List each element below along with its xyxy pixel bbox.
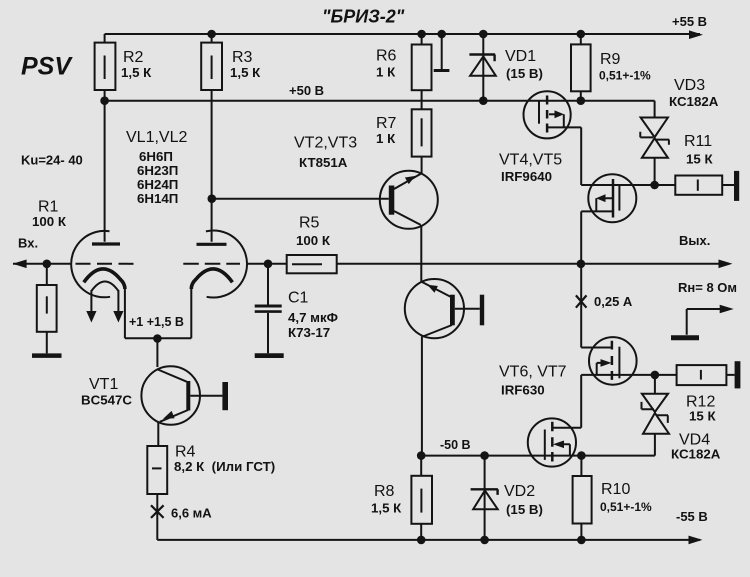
wire +50V line xyxy=(105,100,655,102)
svg-text:R9: R9 xyxy=(600,51,621,68)
svg-text:R10: R10 xyxy=(601,481,630,498)
wire VD3 drop xyxy=(654,101,656,185)
wire VT5 line to R11 node xyxy=(581,184,654,186)
wire -55V bottom rail xyxy=(157,539,700,541)
transistor VT3 xyxy=(405,279,464,338)
svg-text:К73-17: К73-17 xyxy=(288,325,330,340)
svg-text:R6: R6 xyxy=(376,48,397,65)
svg-text:-50 В: -50 В xyxy=(440,438,471,452)
svg-text:IRF9640: IRF9640 xyxy=(501,169,552,184)
wire R4 to bottom rail xyxy=(156,494,158,540)
wire output column to VT6 xyxy=(581,264,612,348)
transistor VT2 xyxy=(380,171,438,229)
svg-text:VD1: VD1 xyxy=(505,48,536,65)
svg-text:PSV: PSV xyxy=(21,53,73,81)
svg-text:VD2: VD2 xyxy=(504,483,535,500)
ground below R1 xyxy=(32,353,62,358)
resistor R9 xyxy=(571,44,591,91)
wire tap stub at R6 xyxy=(441,34,443,71)
capacitor C1 xyxy=(255,305,282,308)
svg-text:R8: R8 xyxy=(374,483,395,500)
wire VD4 column xyxy=(654,375,656,456)
svg-text:R7: R7 xyxy=(376,115,397,132)
svg-text:6Н14П: 6Н14П xyxy=(137,191,178,206)
wire VT6 source line to R12 node xyxy=(581,374,655,376)
svg-text:15 К: 15 К xyxy=(689,409,716,424)
wire R9 branch xyxy=(580,34,582,101)
svg-text:+55 В: +55 В xyxy=(672,14,707,29)
zener pair VD3 xyxy=(641,118,668,138)
svg-text:R3: R3 xyxy=(232,49,253,66)
svg-text:1 К: 1 К xyxy=(376,64,396,79)
svg-text:Ku=24- 40: Ku=24- 40 xyxy=(21,153,83,168)
triode VL2 circle xyxy=(206,231,247,298)
arrow -55V xyxy=(689,536,703,545)
wire VT2 collector / VT3 emitter column xyxy=(420,225,422,282)
svg-text:"БРИЗ-2": "БРИЗ-2" xyxy=(322,7,405,27)
svg-text:КТ851А: КТ851А xyxy=(299,155,348,170)
svg-text:R5: R5 xyxy=(299,215,320,232)
svg-text:8,2 К (Или ГСТ): 8,2 К (Или ГСТ) xyxy=(174,459,275,474)
mosfet VT4 xyxy=(524,91,571,138)
ground at load return xyxy=(671,335,699,340)
arrow +55V xyxy=(689,30,703,39)
svg-text:+50 В: +50 В xyxy=(289,83,324,98)
wire R2 branch (rail to tube1 anode) xyxy=(104,34,106,242)
resistor R7 xyxy=(412,109,432,156)
triode VL1 cathode xyxy=(84,269,125,289)
marker x 6,6 mA xyxy=(151,505,164,518)
svg-text:R4: R4 xyxy=(175,444,196,461)
svg-text:0,51+-1%: 0,51+-1% xyxy=(600,500,652,514)
svg-text:R1: R1 xyxy=(38,199,59,216)
wire VT6 to VT7 drop xyxy=(553,375,581,428)
wire VD2 branch xyxy=(484,456,486,540)
svg-text:1,5 К: 1,5 К xyxy=(121,65,152,80)
triode VL2 anode xyxy=(197,243,227,246)
svg-text:100 К: 100 К xyxy=(296,233,331,248)
zener VD1 xyxy=(469,55,495,62)
terminal bar at VT3 base xyxy=(480,295,484,326)
wire C1 branch to ground xyxy=(267,264,269,353)
terminal bar right of R11 xyxy=(734,171,739,201)
mosfet VT5 xyxy=(588,174,636,222)
svg-text:6Н24П: 6Н24П xyxy=(137,177,178,192)
svg-text:VL1,VL2: VL1,VL2 xyxy=(126,129,187,146)
resistor R11 xyxy=(675,176,722,195)
svg-text:Вх.: Вх. xyxy=(18,236,38,251)
mosfet VT7 xyxy=(528,418,576,466)
svg-text:+1 +1,5 В: +1 +1,5 В xyxy=(129,315,184,329)
svg-text:(15 В): (15 В) xyxy=(506,502,543,517)
wire grid dashed line xyxy=(76,263,134,265)
triode VL1 circle xyxy=(71,231,110,297)
arrow Вх (input, left) xyxy=(13,260,27,269)
svg-text:R2: R2 xyxy=(123,49,144,66)
svg-text:C1: C1 xyxy=(288,290,309,307)
svg-text:15 К: 15 К xyxy=(686,152,713,167)
wire load return xyxy=(687,309,721,335)
svg-text:VD3: VD3 xyxy=(674,77,705,94)
svg-text:Вых.: Вых. xyxy=(679,233,710,248)
ground below C1 xyxy=(255,353,284,358)
resistor R4 xyxy=(147,446,167,494)
wire -50V line xyxy=(421,455,655,457)
wire R11 leads xyxy=(655,184,734,186)
resistor R8 xyxy=(411,476,432,524)
resistor R1 xyxy=(37,285,57,332)
wire R8 leads xyxy=(420,456,422,540)
svg-text:VT1: VT1 xyxy=(89,376,118,393)
wire R12 leads xyxy=(655,374,735,376)
svg-text:VT6, VT7: VT6, VT7 xyxy=(499,364,567,381)
mosfet VT6 xyxy=(589,337,637,385)
resistor R6 xyxy=(412,45,432,91)
arrow load return xyxy=(720,305,734,314)
transistor VT1 xyxy=(141,366,200,425)
wire mid line R5 to output arrow xyxy=(246,263,729,265)
svg-text:BC547C: BC547C xyxy=(81,393,132,408)
terminal bar right of R12 xyxy=(735,361,741,388)
arrow Вых (output, right) xyxy=(719,260,733,269)
zener pair VD4 xyxy=(642,394,668,412)
svg-text:1,5 К: 1,5 К xyxy=(371,501,402,516)
svg-text:0,25 А: 0,25 А xyxy=(594,294,633,309)
wire base line R3 node to VT2 base xyxy=(212,198,389,200)
resistor R5 xyxy=(287,255,337,273)
svg-text:100 К: 100 К xyxy=(32,214,67,229)
svg-text:VT2,VT3: VT2,VT3 xyxy=(294,135,357,152)
triode VL2 cathode xyxy=(191,269,232,289)
wire VD1 branch xyxy=(482,34,484,101)
resistor R10 xyxy=(573,476,592,524)
svg-text:VT4,VT5: VT4,VT5 xyxy=(499,152,562,169)
marker x 0,25 A xyxy=(576,295,587,307)
svg-text:-55 В: -55 В xyxy=(676,509,708,524)
svg-text:(15 В): (15 В) xyxy=(506,66,543,81)
resistor R12 xyxy=(677,365,727,385)
svg-text:КС182А: КС182А xyxy=(669,94,719,109)
wire tube cathodes join xyxy=(125,287,191,367)
wire R1 branch to ground xyxy=(46,264,48,354)
wire VT5 source down to output xyxy=(581,211,612,263)
svg-text:6Н23П: 6Н23П xyxy=(137,163,178,178)
svg-text:IRF630: IRF630 xyxy=(501,383,545,398)
svg-text:0,51+-1%: 0,51+-1% xyxy=(599,69,651,83)
svg-text:4,7 мкФ: 4,7 мкФ xyxy=(288,310,338,325)
wire R10 leads xyxy=(580,456,582,540)
wire VT1 emitter to R4 xyxy=(157,422,159,446)
wire VT4 source drop to VT5 xyxy=(547,127,581,185)
terminal bar at VT1 base xyxy=(222,382,228,410)
svg-text:6,6 мА: 6,6 мА xyxy=(171,506,212,521)
resistor R3 xyxy=(201,43,222,90)
svg-text:КС182А: КС182А xyxy=(671,447,721,462)
wire R3 branch (rail to tube2 anode) xyxy=(211,34,213,242)
wire VT3 collector to -50V node xyxy=(421,336,423,455)
svg-text:R11: R11 xyxy=(684,133,712,150)
resistor R2 xyxy=(95,43,116,90)
svg-text:1 К: 1 К xyxy=(376,131,396,146)
tap bar on R6 xyxy=(434,69,450,72)
zener VD2 xyxy=(471,489,498,495)
junction dots xyxy=(207,30,216,39)
triode VL1 anode xyxy=(92,242,120,245)
triode VL1 heater arrows xyxy=(91,282,118,312)
wire +55V top rail xyxy=(105,33,700,35)
wire R6/R7 branch xyxy=(421,34,423,174)
svg-text:Rн= 8 Ом: Rн= 8 Ом xyxy=(678,280,737,295)
svg-text:1,5 К: 1,5 К xyxy=(230,65,261,80)
wire input Вх line xyxy=(13,263,70,265)
svg-text:6Н6П: 6Н6П xyxy=(139,149,173,164)
